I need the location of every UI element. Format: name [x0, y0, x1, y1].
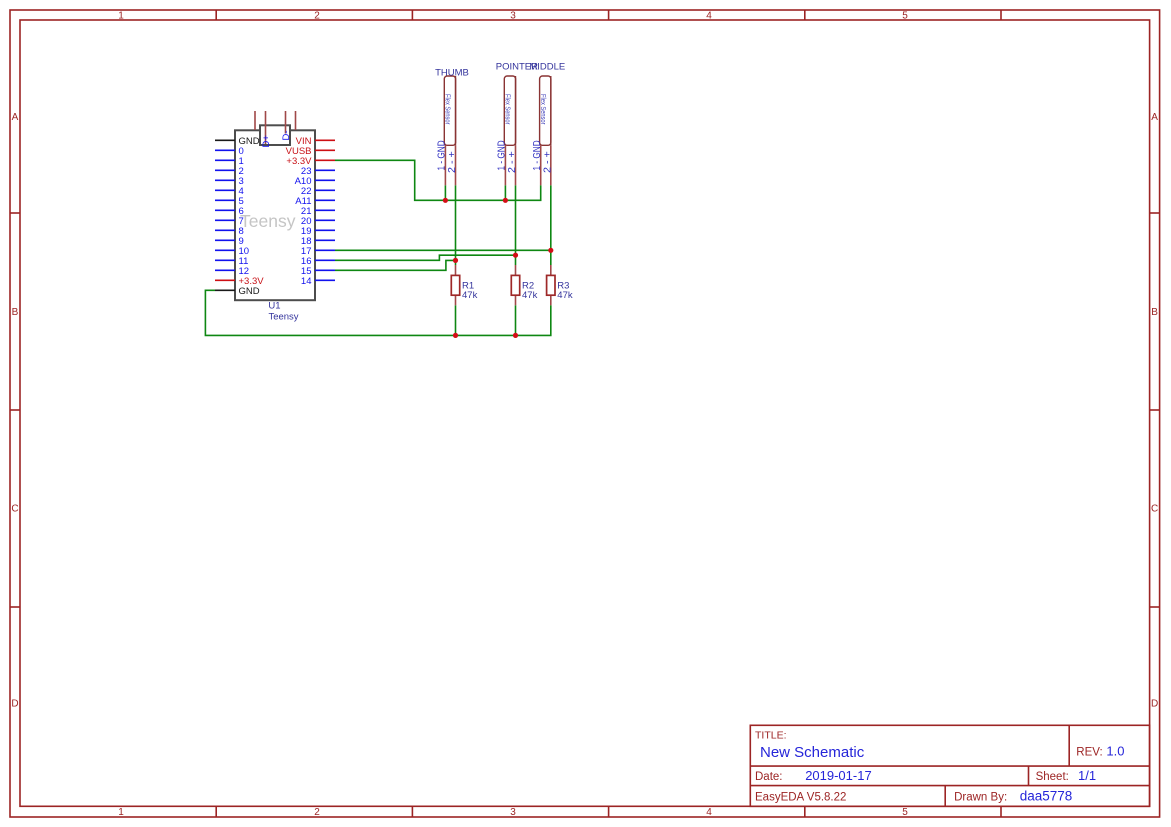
svg-text:2 - +: 2 - +	[543, 151, 554, 173]
svg-text:1: 1	[118, 11, 124, 22]
svg-text:C: C	[1151, 504, 1158, 515]
svg-text:2: 2	[314, 11, 320, 22]
svg-text:1 - GND: 1 - GND	[532, 140, 543, 170]
svg-text:14: 14	[301, 276, 312, 287]
svg-text:3: 3	[510, 807, 516, 818]
svg-text:REV:: REV:	[1076, 746, 1102, 758]
svg-text:1.0: 1.0	[1106, 743, 1124, 758]
svg-text:D-: D-	[281, 130, 292, 140]
svg-text:EasyEDA V5.8.22: EasyEDA V5.8.22	[755, 791, 846, 803]
svg-text:A: A	[12, 112, 19, 123]
svg-text:4: 4	[706, 807, 712, 818]
svg-text:Teensy: Teensy	[240, 211, 296, 231]
svg-text:New Schematic: New Schematic	[760, 744, 865, 761]
svg-text:1: 1	[118, 807, 124, 818]
svg-text:Flex Sensor: Flex Sensor	[539, 94, 546, 125]
svg-text:B: B	[12, 307, 19, 318]
svg-text:D: D	[11, 699, 18, 710]
svg-text:B: B	[1151, 307, 1158, 318]
svg-text:MIDDLE: MIDDLE	[529, 62, 565, 73]
svg-text:1 - GND: 1 - GND	[497, 140, 508, 170]
svg-text:47k: 47k	[522, 290, 538, 301]
svg-text:THUMB: THUMB	[435, 68, 469, 79]
svg-text:U1: U1	[268, 301, 280, 312]
svg-text:C: C	[11, 504, 18, 515]
svg-text:Teensy: Teensy	[268, 311, 298, 322]
svg-text:47k: 47k	[557, 290, 573, 301]
svg-text:3: 3	[510, 11, 516, 22]
svg-text:2019-01-17: 2019-01-17	[805, 768, 872, 783]
svg-text:GND: GND	[239, 286, 260, 297]
svg-text:47k: 47k	[462, 290, 478, 301]
svg-text:Flex Sensor: Flex Sensor	[444, 94, 451, 125]
svg-text:2: 2	[314, 807, 320, 818]
svg-text:1 - GND: 1 - GND	[437, 140, 448, 170]
svg-text:2 - +: 2 - +	[507, 151, 518, 173]
svg-text:TITLE:: TITLE:	[755, 730, 787, 742]
svg-text:Flex Sensor: Flex Sensor	[504, 94, 511, 125]
svg-text:Drawn By:: Drawn By:	[954, 791, 1007, 803]
svg-text:1/1: 1/1	[1078, 768, 1096, 783]
svg-text:Date:: Date:	[755, 771, 783, 783]
svg-text:5: 5	[902, 807, 908, 818]
svg-text:D+: D+	[261, 135, 272, 148]
svg-text:Sheet:: Sheet:	[1036, 771, 1069, 783]
svg-text:5: 5	[902, 11, 908, 22]
svg-text:daa5778: daa5778	[1020, 788, 1073, 803]
svg-text:D: D	[1151, 699, 1158, 710]
svg-text:2 - +: 2 - +	[447, 151, 458, 173]
svg-text:A: A	[1151, 112, 1158, 123]
svg-text:4: 4	[706, 11, 712, 22]
